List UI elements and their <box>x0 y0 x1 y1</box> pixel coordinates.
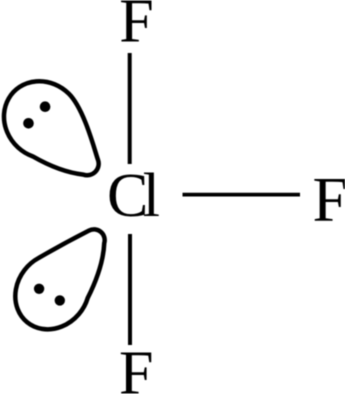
wire bond Cl-F bottom <box>128 234 132 345</box>
wire bond Cl-F top <box>128 53 132 164</box>
lone pair dot <box>23 118 34 129</box>
lone pair lobe upper-left <box>0 65 121 198</box>
lone pair lobe lower-left <box>0 210 128 345</box>
svg-text:F: F <box>313 163 345 234</box>
wire bond Cl-F right <box>183 193 301 197</box>
lone pair dot <box>55 295 65 305</box>
svg-text:Cl: Cl <box>107 162 160 230</box>
svg-text:F: F <box>119 340 153 394</box>
svg-text:F: F <box>119 0 153 56</box>
lone pair dot <box>40 101 51 112</box>
lone pair dot <box>34 284 44 294</box>
